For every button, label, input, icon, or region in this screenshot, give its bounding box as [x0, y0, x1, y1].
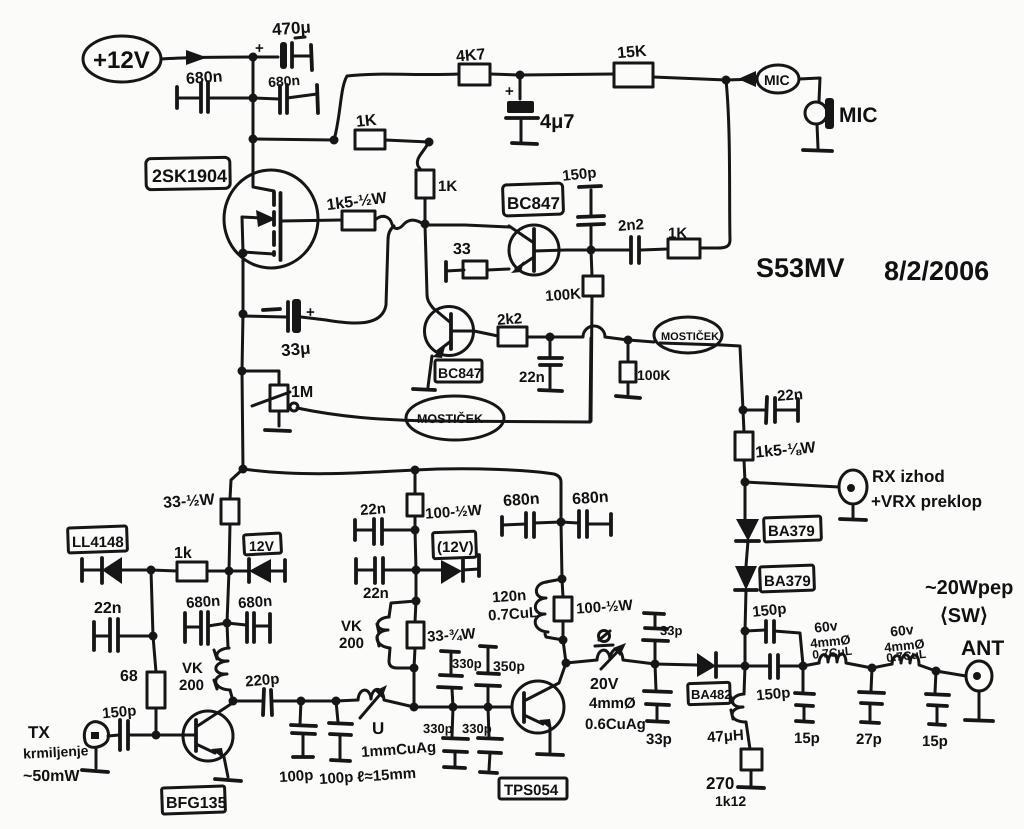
resistor 100K to ground	[620, 340, 670, 394]
node AL	[868, 664, 877, 673]
resistor 15K	[614, 43, 726, 87]
node S	[149, 632, 158, 641]
node T (BFG base)	[152, 731, 161, 740]
label box 12V	[244, 533, 282, 555]
node C	[330, 136, 339, 145]
svg-text:100-½W: 100-½W	[425, 502, 484, 523]
svg-text:~20Wpep: ~20Wpep	[925, 577, 1013, 599]
node G	[425, 138, 434, 147]
capacitor C 22n A	[355, 500, 415, 544]
capacitor C 33p down	[644, 664, 672, 748]
resistor 100-1/2W second	[554, 579, 634, 640]
node U (BFG collector)	[229, 697, 238, 706]
wire node G down to 1K vertical	[417, 142, 429, 170]
label box BC847 first	[502, 183, 563, 216]
label box 2SK1904	[146, 157, 231, 189]
resistor 1k5-1/8W	[735, 410, 817, 482]
node R	[147, 566, 156, 575]
wire mosticek2 to right column	[722, 345, 743, 410]
inductor 20V 4mm 0.6CuAg trimmer	[566, 631, 655, 734]
microphone symbol	[805, 98, 834, 148]
svg-text:(12V): (12V)	[437, 539, 474, 556]
node AK	[799, 662, 808, 671]
wire node A down to node B	[252, 57, 255, 139]
node L	[739, 406, 748, 415]
capacitor C 33u electrolytic	[239, 299, 327, 360]
svg-text:RX izhod: RX izhod	[872, 467, 945, 486]
svg-text:200: 200	[179, 677, 204, 694]
resistor 33-3/4W	[407, 601, 477, 668]
capacitor C 220p	[233, 671, 301, 715]
inductor 60V second	[872, 621, 936, 671]
node AD	[484, 703, 493, 712]
svg-text:S53MV: S53MV	[756, 253, 845, 283]
capacitor C 22n left column	[94, 600, 153, 651]
resistor 1K vertical	[416, 170, 457, 224]
svg-text:+12V: +12V	[93, 47, 150, 74]
svg-text:220p: 220p	[245, 671, 281, 691]
resistor 2k2	[474, 310, 550, 346]
ground for RX terminal	[840, 519, 866, 520]
svg-text:BA379: BA379	[764, 573, 811, 590]
node AI	[651, 660, 660, 669]
svg-text:330p: 330p	[423, 721, 453, 736]
svg-text:⟨SW⟩: ⟨SW⟩	[940, 605, 988, 627]
power terminal +12V	[83, 36, 161, 82]
svg-text:2SK1904: 2SK1904	[152, 166, 227, 186]
wire +12V to node A	[161, 57, 253, 59]
svg-text:BA482: BA482	[691, 687, 731, 702]
svg-text:1K: 1K	[438, 178, 457, 195]
svg-text:22n: 22n	[94, 600, 122, 617]
svg-text:680n: 680n	[503, 491, 541, 511]
ground for Q4	[215, 779, 241, 781]
capacitor C 330p down first	[423, 707, 468, 768]
svg-text:150p: 150p	[751, 600, 787, 620]
node AG	[558, 575, 567, 584]
ground for ANT	[965, 720, 993, 721]
resistor 4K7	[455, 46, 520, 85]
svg-text:33-¾W: 33-¾W	[427, 625, 477, 645]
arrow into mic node	[738, 71, 756, 87]
svg-text:ℓ≈15mm: ℓ≈15mm	[357, 765, 417, 786]
diode D BA482	[655, 653, 745, 677]
capacitor C 15p second	[922, 671, 949, 750]
node W	[332, 697, 341, 706]
node K	[624, 336, 633, 345]
svg-text:TX: TX	[28, 723, 50, 742]
svg-text:680n: 680n	[268, 72, 301, 90]
terminal ANT	[966, 661, 992, 718]
svg-text:1k: 1k	[174, 545, 192, 562]
node X	[411, 526, 420, 535]
wire node N to rail	[744, 631, 747, 666]
diode D 12V	[229, 559, 285, 583]
label box (12V)	[433, 531, 477, 558]
resistor 100-1/2W first	[407, 470, 483, 530]
svg-text:33p: 33p	[660, 623, 682, 638]
node AA	[410, 664, 419, 673]
capacitor C 680n third	[502, 491, 561, 537]
node AJ	[741, 662, 750, 671]
svg-text:33: 33	[453, 241, 471, 258]
inductor 47uH choke	[707, 666, 750, 749]
wire node D to 15K	[520, 74, 614, 75]
wire MIC oval to microphone	[799, 78, 820, 101]
svg-text:VK: VK	[341, 618, 362, 635]
svg-text:100K: 100K	[637, 367, 670, 383]
resistor 1K top	[355, 112, 429, 149]
svg-text:MIC: MIC	[764, 72, 790, 88]
svg-text:0.7CuL: 0.7CuL	[886, 647, 927, 665]
svg-text:BC847: BC847	[507, 194, 560, 213]
svg-text:TPS054: TPS054	[504, 782, 559, 799]
capacitor C 15p first	[794, 666, 820, 747]
node AC	[449, 703, 458, 712]
svg-text:33-½W: 33-½W	[163, 491, 217, 512]
node E (mic node)	[722, 76, 731, 85]
svg-text:22n: 22n	[360, 500, 387, 519]
node A	[249, 53, 258, 62]
svg-text:22n: 22n	[519, 369, 545, 386]
jumper oval MOSTICEK first	[406, 396, 504, 440]
wire node I down to rail node O	[242, 371, 243, 469]
ground for microphone	[803, 150, 832, 151]
svg-text:270: 270	[706, 774, 734, 793]
node N	[741, 627, 750, 636]
label box BFG135	[162, 786, 227, 814]
svg-text:+: +	[505, 83, 514, 100]
node V	[297, 697, 306, 706]
svg-text:15K: 15K	[617, 43, 648, 63]
inductor VK200 first	[179, 623, 233, 701]
capacitor C 330p up stub	[438, 651, 482, 707]
node I	[238, 367, 247, 376]
capacitor C 680n	[177, 68, 253, 112]
label box BA379 first	[764, 516, 822, 542]
label box BA379 second	[760, 565, 815, 592]
svg-text:680n: 680n	[238, 593, 273, 612]
svg-text:20V: 20V	[590, 676, 619, 693]
capacitor C 33p up stub	[643, 613, 682, 664]
svg-text:33p: 33p	[646, 731, 672, 748]
svg-text:150p: 150p	[756, 684, 792, 704]
node B	[249, 135, 258, 144]
ground for 270	[738, 787, 764, 788]
ground for 100K	[616, 396, 640, 398]
wire 33u up to gate resistor	[326, 226, 394, 323]
node Z	[412, 597, 421, 606]
svg-text:100p: 100p	[279, 767, 314, 786]
resistor 1K mic	[641, 225, 700, 258]
label box LL4148	[68, 526, 128, 553]
wire arrow to MIC oval	[726, 79, 757, 80]
svg-text:MIC: MIC	[839, 104, 878, 127]
wire riser node C to resistor 4K7	[334, 74, 459, 140]
svg-text:~50mW: ~50mW	[23, 768, 80, 785]
svg-text:4mmØ: 4mmØ	[589, 695, 636, 712]
wire AG up to 680n node	[561, 522, 562, 579]
svg-text:330p: 330p	[452, 656, 482, 671]
wire AA down to rail	[413, 668, 416, 707]
svg-text:krmiljenje: krmiljenje	[23, 742, 89, 761]
node Q	[225, 567, 234, 576]
diode D BA379 first	[736, 482, 759, 566]
node AF	[559, 636, 568, 645]
svg-text:LL4148: LL4148	[72, 534, 124, 551]
capacitor C 470u electrolytic	[253, 18, 312, 70]
jumper oval MOSTICEK second	[628, 317, 722, 353]
svg-text:MOSTIČEK: MOSTIČEK	[661, 330, 719, 343]
svg-text:100K: 100K	[545, 286, 582, 305]
resistor 68	[120, 668, 165, 735]
resistor 1k5-1/2W gate	[326, 190, 425, 230]
svg-text:1k5-⅛W: 1k5-⅛W	[755, 439, 818, 461]
transistor Q5 TPS054	[512, 663, 566, 752]
resistor 33 emitter	[446, 241, 509, 281]
capacitor C 22n B	[356, 558, 416, 602]
capacitor C 27p	[856, 668, 884, 748]
capacitor C 680n lower-left first	[185, 593, 227, 644]
potentiometer 1M	[242, 371, 313, 426]
wire node R down to 68	[151, 570, 156, 672]
node on 680n net	[249, 94, 258, 103]
svg-text:BC847: BC847	[438, 365, 482, 381]
wire AE up	[563, 640, 566, 663]
node D (4u7 tap)	[516, 71, 525, 80]
capacitor C 150p bypass loop	[745, 600, 803, 665]
node AH	[557, 518, 566, 527]
text TX krmiljenje ~50mW	[23, 723, 89, 785]
node Y	[412, 566, 421, 575]
capacitor C 330p down second	[462, 707, 502, 773]
resistor 1k left	[151, 545, 229, 581]
wire to ANT	[936, 671, 966, 676]
wire mic node down to 1K audio resistor	[700, 80, 730, 248]
resistor 270	[706, 749, 762, 809]
resistor 100K vertical	[545, 250, 603, 421]
capacitor C 150p stub	[561, 164, 604, 250]
svg-text:68: 68	[120, 668, 138, 685]
label box TPS054	[499, 778, 567, 799]
svg-text:12V: 12V	[249, 538, 275, 554]
wire wiper to mosticek oval	[297, 408, 590, 422]
svg-text:BA379: BA379	[768, 523, 815, 540]
capacitor C 22n at node J	[519, 337, 562, 388]
diode D BA379 second	[735, 566, 757, 631]
svg-text:120n: 120n	[492, 587, 527, 606]
svg-text:100p: 100p	[319, 769, 354, 788]
node M (RX tap)	[741, 478, 750, 487]
node H	[421, 220, 430, 229]
inductor 120n 0.7CuL	[488, 579, 563, 640]
svg-text:680n: 680n	[185, 68, 223, 88]
svg-text:ANT: ANT	[961, 637, 1004, 660]
terminal TX input	[84, 722, 108, 768]
node AM	[932, 667, 941, 676]
transistor Q1 2SK1904 FET body	[224, 139, 342, 314]
inductor 60V first	[803, 617, 872, 668]
wire node V to node W	[301, 700, 336, 703]
ground for Q3	[413, 389, 435, 390]
svg-text:1M: 1M	[291, 384, 313, 401]
node P rail mid	[411, 466, 420, 475]
svg-text:350p: 350p	[493, 658, 525, 674]
svg-text:150p: 150p	[561, 164, 597, 184]
node O rail left	[239, 465, 248, 474]
capacitor C 680n fourth	[561, 489, 611, 537]
svg-text:47μH: 47μH	[707, 727, 745, 747]
svg-text:200: 200	[339, 635, 364, 652]
capacitor C 100p first	[279, 701, 316, 786]
svg-text:1mmCuAg: 1mmCuAg	[361, 739, 437, 761]
arrow on +12V wire	[186, 50, 207, 65]
wire X to Y	[415, 530, 416, 570]
wire node Q down to 680n node	[227, 571, 229, 623]
wire down left column	[242, 314, 243, 371]
node AE (TPS collector)	[562, 659, 571, 668]
ground for 4u7	[512, 143, 537, 144]
wire mosticek riser up	[590, 338, 591, 422]
svg-text:U: U	[372, 719, 384, 738]
ground for 1M	[265, 430, 290, 431]
capacitor C 350p up stub	[476, 646, 525, 707]
svg-text:VK: VK	[182, 660, 203, 677]
svg-text:22n: 22n	[363, 585, 389, 602]
capacitor C 2n2	[591, 216, 644, 263]
wire filter rail	[414, 706, 512, 709]
ground for Q5	[537, 754, 563, 755]
diode D (12V)	[416, 555, 479, 584]
capacitor C 4u7 electrolytic to ground	[505, 75, 574, 141]
svg-text:+: +	[255, 40, 264, 57]
svg-text:0.7CuL: 0.7CuL	[488, 604, 539, 624]
svg-text:BFG135: BFG135	[166, 795, 227, 812]
svg-text:2n2: 2n2	[617, 216, 644, 235]
transistor Q2 BC847 first	[425, 225, 591, 275]
ground for 22n	[539, 390, 562, 391]
svg-text:100-½W: 100-½W	[576, 597, 635, 618]
transistor Q4 BFG135	[156, 704, 233, 777]
svg-text:680n: 680n	[186, 593, 221, 612]
capacitor C 100p second	[319, 701, 354, 788]
svg-text:1k12: 1k12	[715, 793, 746, 809]
node Q2	[223, 619, 232, 628]
capacitor C 680n second	[253, 72, 318, 113]
svg-text:330p: 330p	[462, 721, 492, 736]
node F (BC847 base node)	[587, 246, 596, 255]
ground for TX terminal	[82, 770, 108, 772]
node J	[546, 333, 555, 342]
inductor trimmer U 1mmCuAg	[336, 685, 437, 786]
svg-text:1K: 1K	[355, 112, 378, 131]
terminal oval MIC	[757, 65, 799, 93]
wire supply rail lower	[243, 469, 561, 522]
label box BA482	[688, 682, 732, 704]
svg-text:680n: 680n	[572, 489, 610, 509]
diode D LL4148	[82, 557, 151, 584]
svg-text:8/2/2006: 8/2/2006	[884, 256, 989, 286]
resistor 33-1/2W	[163, 469, 243, 571]
svg-text:+VRX preklop: +VRX preklop	[871, 492, 982, 511]
svg-text:MOSTIČEK: MOSTIČEK	[417, 411, 483, 426]
capacitor C 150p series	[745, 655, 803, 704]
svg-text:15p: 15p	[794, 730, 820, 747]
transistor Q3 BC847 second	[425, 225, 475, 387]
svg-text:27p: 27p	[856, 731, 882, 748]
capacitor C 680n lower-left second	[227, 593, 273, 642]
wire node B to node C	[253, 139, 334, 140]
capacitor C 150p TX	[102, 702, 156, 750]
svg-text:33μ: 33μ	[280, 339, 311, 360]
capacitor C 22n right stub	[743, 386, 804, 423]
svg-text:4μ7: 4μ7	[540, 111, 574, 133]
wire node M to RX terminal	[745, 482, 839, 487]
svg-text:15p: 15p	[922, 733, 948, 750]
svg-text:0.6CuAg: 0.6CuAg	[585, 716, 646, 733]
terminal oval RX	[839, 470, 867, 517]
wire node J hop to node K	[550, 326, 628, 340]
inductor VK200 second	[339, 601, 416, 668]
node AB	[410, 703, 419, 712]
wire Y to Z	[415, 570, 418, 601]
label box BC847 second	[435, 360, 482, 382]
